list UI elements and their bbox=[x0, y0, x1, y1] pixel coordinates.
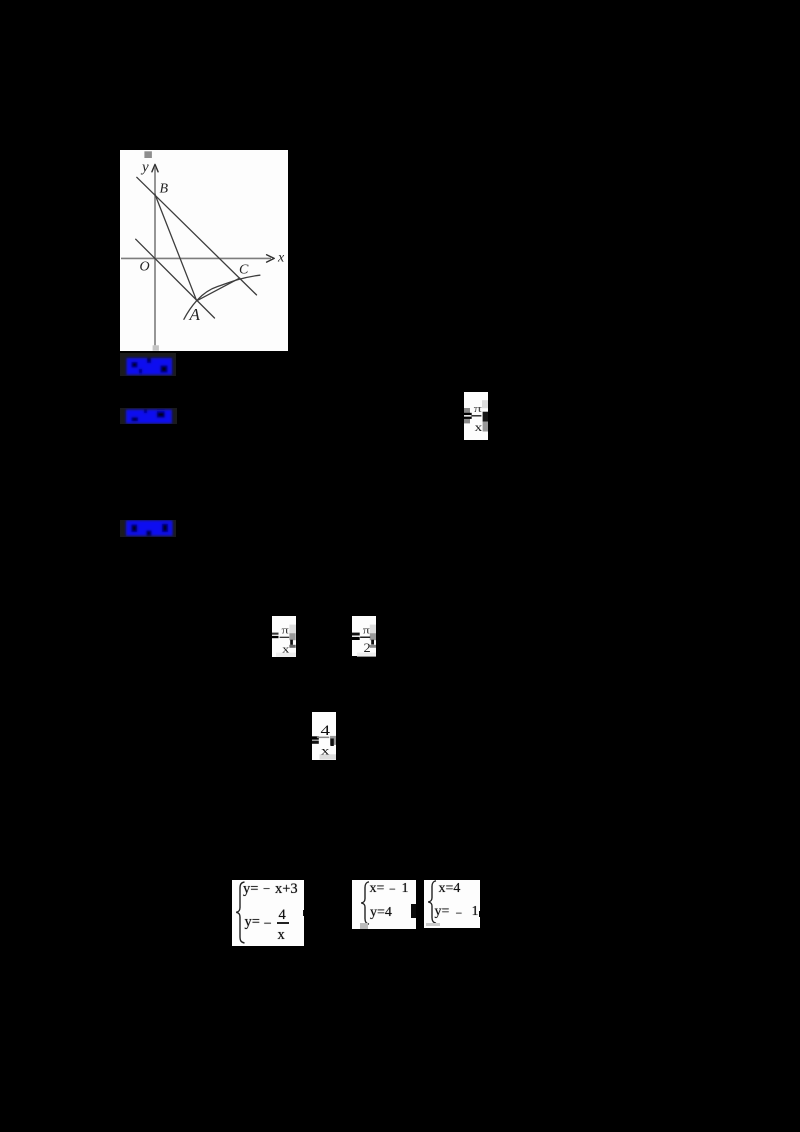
svg-text:x: x bbox=[277, 251, 285, 266]
svg-text:A: A bbox=[189, 305, 201, 324]
svg-text:x: x bbox=[321, 743, 329, 757]
svg-text:x: x bbox=[475, 420, 483, 434]
svg-text:y: y bbox=[140, 160, 149, 176]
svg-text:4: 4 bbox=[321, 723, 331, 739]
svg-text:π: π bbox=[363, 625, 371, 636]
svg-text:π: π bbox=[474, 403, 483, 415]
svg-text:B: B bbox=[160, 182, 169, 197]
svg-text:x: x bbox=[282, 643, 290, 655]
svg-text:O: O bbox=[140, 260, 150, 275]
svg-text:π: π bbox=[282, 625, 290, 636]
svg-text:2: 2 bbox=[364, 640, 371, 655]
svg-text:C: C bbox=[239, 263, 249, 278]
